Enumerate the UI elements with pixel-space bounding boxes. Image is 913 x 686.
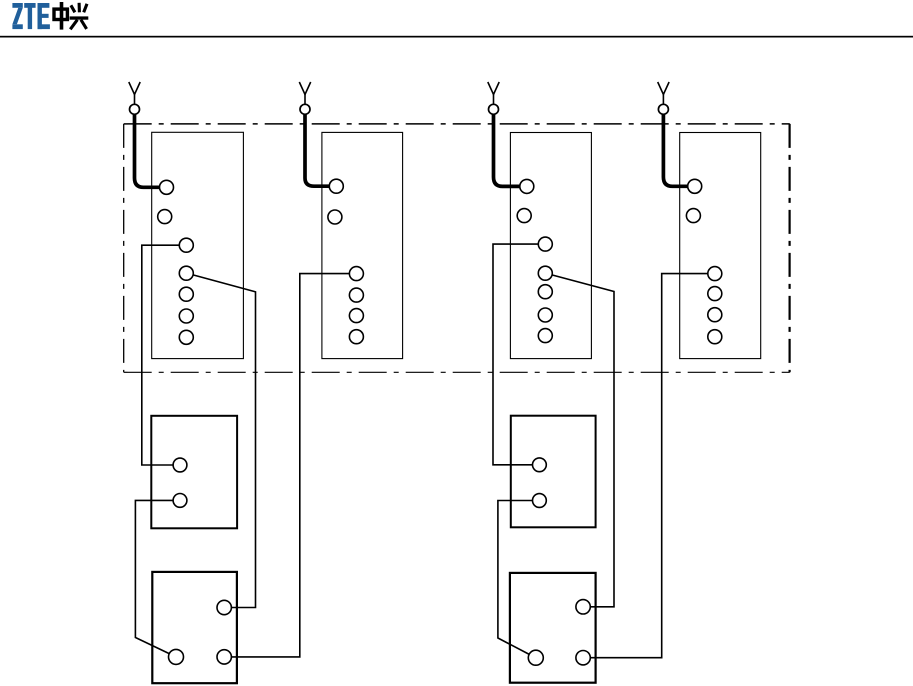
U1 port circles <box>158 180 194 344</box>
header rule <box>0 36 913 38</box>
feeder cable 1 <box>135 114 161 187</box>
antenna ANT4 <box>658 82 669 114</box>
ZTE logo character Xing <box>70 3 89 30</box>
wire U3 TX to divider B top <box>552 275 614 607</box>
wire U1 TX to divider A top <box>193 275 256 608</box>
duplexer module U1 <box>152 132 244 358</box>
feeder cable 3 <box>494 114 521 186</box>
U3 port circles <box>517 179 552 342</box>
antenna ANT1 <box>129 82 140 114</box>
wire combiner A out to divider A left <box>135 500 173 654</box>
feeder cable 2 <box>305 114 330 186</box>
combiner A ports <box>173 458 187 507</box>
wire U2 to divider A bottom <box>231 274 349 657</box>
combiner box B <box>511 416 596 528</box>
combiner B ports <box>533 458 547 508</box>
duplexer module U2 <box>322 132 403 358</box>
ZTE logo character Zhong <box>54 2 67 30</box>
divider box A <box>152 572 237 683</box>
feeder cable 4 <box>663 114 688 186</box>
duplexer module U4 <box>680 133 761 359</box>
divider B ports <box>528 600 590 666</box>
U2 port circles <box>328 179 364 344</box>
wire U3 RX to combiner B in <box>493 244 538 465</box>
wire U4 to divider B bottom <box>590 274 708 658</box>
wire U1 RX to combiner A in <box>142 245 180 465</box>
divider A ports <box>169 600 232 664</box>
duplexer module U3 <box>510 133 591 359</box>
antenna ANT3 <box>488 82 499 114</box>
divider box B <box>510 573 596 683</box>
U4 port circles <box>686 179 721 343</box>
combiner box A <box>151 416 237 529</box>
ZTE logo blue letters <box>12 3 50 29</box>
cabinet boundary dash-dot frame <box>124 124 790 372</box>
antenna ANT2 <box>299 82 310 114</box>
wire combiner B out to divider B left <box>498 501 533 655</box>
